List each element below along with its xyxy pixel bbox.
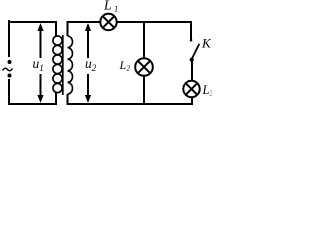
wire switch to lamp L3 [191, 60, 193, 81]
voltage arrow u1 head up [37, 23, 43, 31]
wire left side upper [8, 20, 10, 57]
wire top left loop [9, 21, 56, 23]
voltage arrow u1 shaft upper [40, 28, 42, 58]
voltage arrow u2 head down [85, 95, 91, 103]
svg-text:K: K [201, 36, 212, 51]
AC source terminal dot upper [8, 60, 12, 64]
wire bottom right loop [68, 103, 194, 105]
wire lamp L3 to bottom [191, 97, 193, 104]
transformer primary bottom stub [55, 92, 57, 105]
wire top right loop right of L1 [117, 21, 191, 23]
wire right side stub to switch [190, 21, 192, 40]
voltage arrow u2 shaft lower [87, 74, 89, 96]
switch K arm [192, 44, 200, 60]
switch K pivot dot [190, 58, 194, 62]
wire middle branch lower [143, 76, 145, 105]
switch K top contact [190, 39, 193, 42]
transformer core [62, 35, 64, 95]
transformer secondary coil [68, 36, 73, 94]
voltage arrow u2 head up [85, 23, 91, 31]
wire top right loop left of L1 [68, 21, 101, 23]
voltage arrow u1 shaft lower [40, 74, 42, 96]
wire bottom left loop [8, 103, 56, 105]
voltage arrow u1 head down [37, 95, 43, 103]
wire left side lower [8, 79, 10, 105]
lamp L2 [135, 58, 153, 76]
AC source tilde [3, 68, 13, 71]
transformer secondary top stub [67, 21, 69, 36]
lamp L1 [100, 14, 116, 30]
transformer secondary bottom stub [67, 94, 69, 105]
lamp L3 [183, 81, 199, 97]
AC source terminal dot lower [8, 74, 12, 78]
transformer primary top stub [55, 21, 57, 36]
wire middle branch upper [143, 21, 145, 58]
voltage arrow u2 shaft upper [87, 28, 89, 58]
transformer primary coil loops [53, 36, 62, 93]
